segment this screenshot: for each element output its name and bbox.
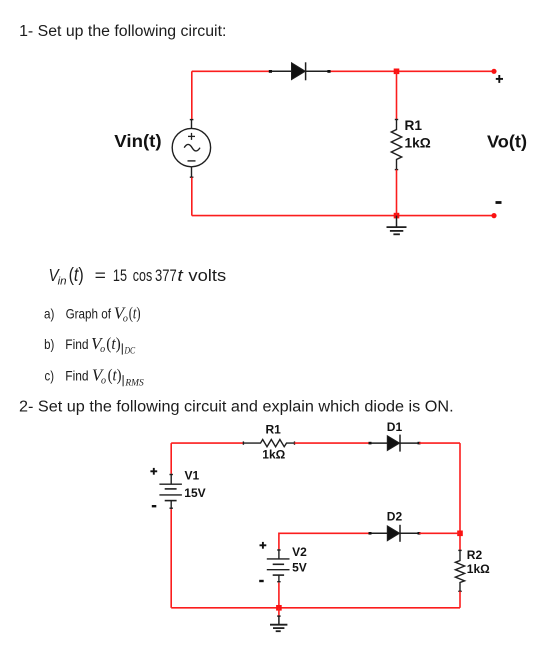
svg-text:R2: R2 bbox=[467, 548, 483, 562]
wire middle branch right (D2 to junction) bbox=[419, 532, 460, 534]
svg-text:Vo(t): Vo(t) bbox=[487, 132, 527, 152]
wire ground stub (red) bbox=[278, 608, 280, 616]
svg-text:R1: R1 bbox=[405, 118, 423, 133]
svg-text:t: t bbox=[177, 266, 184, 285]
svg-text:o: o bbox=[100, 344, 105, 355]
svg-text:(t): (t) bbox=[69, 265, 84, 286]
wire right upper (corner to R2 node) bbox=[459, 443, 461, 550]
label V2 - polarity bbox=[259, 580, 264, 582]
svg-text:D2: D2 bbox=[387, 510, 403, 524]
svg-text:15V: 15V bbox=[184, 486, 205, 500]
svg-text:R1: R1 bbox=[266, 422, 282, 436]
label R2 value bbox=[467, 548, 490, 576]
svg-text:in: in bbox=[58, 276, 67, 288]
svg-text:377: 377 bbox=[155, 266, 177, 285]
svg-text:Find: Find bbox=[65, 336, 88, 352]
svg-text:c): c) bbox=[45, 368, 55, 384]
wire left lower (source to bottom) bbox=[191, 177, 193, 215]
svg-text:b): b) bbox=[44, 336, 54, 352]
battery V1 bbox=[159, 474, 182, 509]
wire top segment middle (R1 to D1) bbox=[295, 442, 371, 444]
svg-text:Graph of: Graph of bbox=[66, 305, 111, 321]
wire top-left segment (node A to diode anode) bbox=[192, 70, 271, 72]
wire left upper (corner to V1) bbox=[170, 443, 172, 474]
wire V2 to bottom node bbox=[278, 583, 280, 608]
diode D1 bbox=[369, 435, 421, 452]
label - output polarity bbox=[496, 201, 502, 204]
wire top segment right (D1 to corner) bbox=[419, 442, 460, 444]
svg-text:V1: V1 bbox=[185, 469, 200, 483]
label V2 value bbox=[292, 545, 307, 575]
svg-text:a): a) bbox=[44, 305, 54, 321]
node output - terminal dot bbox=[491, 213, 496, 218]
label V1 - polarity bbox=[152, 505, 157, 507]
node junction bottom (ground node) bbox=[394, 213, 400, 219]
svg-text:1kΩ: 1kΩ bbox=[467, 562, 490, 576]
svg-text:Vin(t): Vin(t) bbox=[114, 131, 161, 151]
label R1 value (circuit 1) bbox=[405, 118, 431, 151]
node junction top (R1 branch) bbox=[394, 69, 400, 75]
label V1 + polarity bbox=[150, 468, 157, 475]
svg-text:volts: volts bbox=[188, 266, 226, 285]
wire bottom bbox=[192, 215, 494, 217]
node output + terminal dot bbox=[491, 69, 496, 74]
wire middle branch corner (V2 top) bbox=[279, 533, 370, 549]
node junction right (D2 output) bbox=[457, 531, 463, 537]
diode D (circuit 1) bbox=[269, 62, 331, 80]
math equation Vin(t)=15cos377t volts bbox=[49, 265, 227, 288]
svg-text:5V: 5V bbox=[292, 561, 307, 575]
label V1 value bbox=[184, 469, 205, 500]
ground (circuit 2) bbox=[270, 616, 287, 631]
resistor R1 (circuit 2) bbox=[243, 440, 294, 447]
wire branch lower (R1 to ground node) bbox=[396, 170, 398, 216]
svg-text:=: = bbox=[95, 266, 106, 285]
label V2 + polarity bbox=[260, 542, 267, 549]
svg-text:(t): (t) bbox=[129, 303, 141, 322]
svg-text:(t): (t) bbox=[108, 366, 122, 385]
wire bottom bbox=[171, 607, 460, 609]
source V (Vin) AC voltage source bbox=[172, 119, 210, 177]
resistor R2 bbox=[455, 550, 464, 591]
label + output polarity bbox=[496, 75, 503, 83]
item c bbox=[45, 366, 144, 389]
ground (circuit 1) bbox=[387, 216, 407, 235]
svg-text:o: o bbox=[123, 313, 128, 324]
svg-text:2- Set up the following circui: 2- Set up the following circuit and expl… bbox=[19, 399, 454, 416]
svg-text:1- Set up the following circui: 1- Set up the following circuit: bbox=[19, 23, 226, 40]
battery V2 bbox=[267, 549, 290, 582]
item b bbox=[44, 334, 136, 357]
wire right lower (R2 to corner) bbox=[459, 591, 461, 608]
node junction bottom (V2 ground node) bbox=[276, 605, 282, 611]
svg-text:cos: cos bbox=[133, 266, 152, 285]
wire diode cathode to output node bbox=[329, 70, 494, 72]
svg-text:DC: DC bbox=[124, 347, 136, 357]
resistor R1 (circuit 1) bbox=[391, 120, 401, 170]
item a bbox=[44, 303, 141, 324]
svg-text:V2: V2 bbox=[292, 545, 307, 559]
svg-text:D1: D1 bbox=[387, 420, 403, 434]
wire left lower (V1 to corner) bbox=[170, 509, 172, 608]
svg-text:1kΩ: 1kΩ bbox=[262, 448, 285, 462]
svg-text:RMS: RMS bbox=[124, 378, 144, 388]
wire branch upper (node to R1) bbox=[396, 71, 398, 119]
svg-text:Find: Find bbox=[65, 368, 88, 384]
wire left upper (to source) bbox=[191, 71, 193, 119]
svg-text:(t): (t) bbox=[106, 334, 121, 353]
svg-text:o: o bbox=[101, 376, 106, 387]
wire top segment left (to R1) bbox=[171, 442, 244, 444]
svg-text:15: 15 bbox=[113, 266, 127, 285]
diode D2 bbox=[369, 525, 421, 542]
svg-text:1kΩ: 1kΩ bbox=[405, 136, 431, 151]
label R1 (circuit 2) bbox=[262, 422, 285, 461]
